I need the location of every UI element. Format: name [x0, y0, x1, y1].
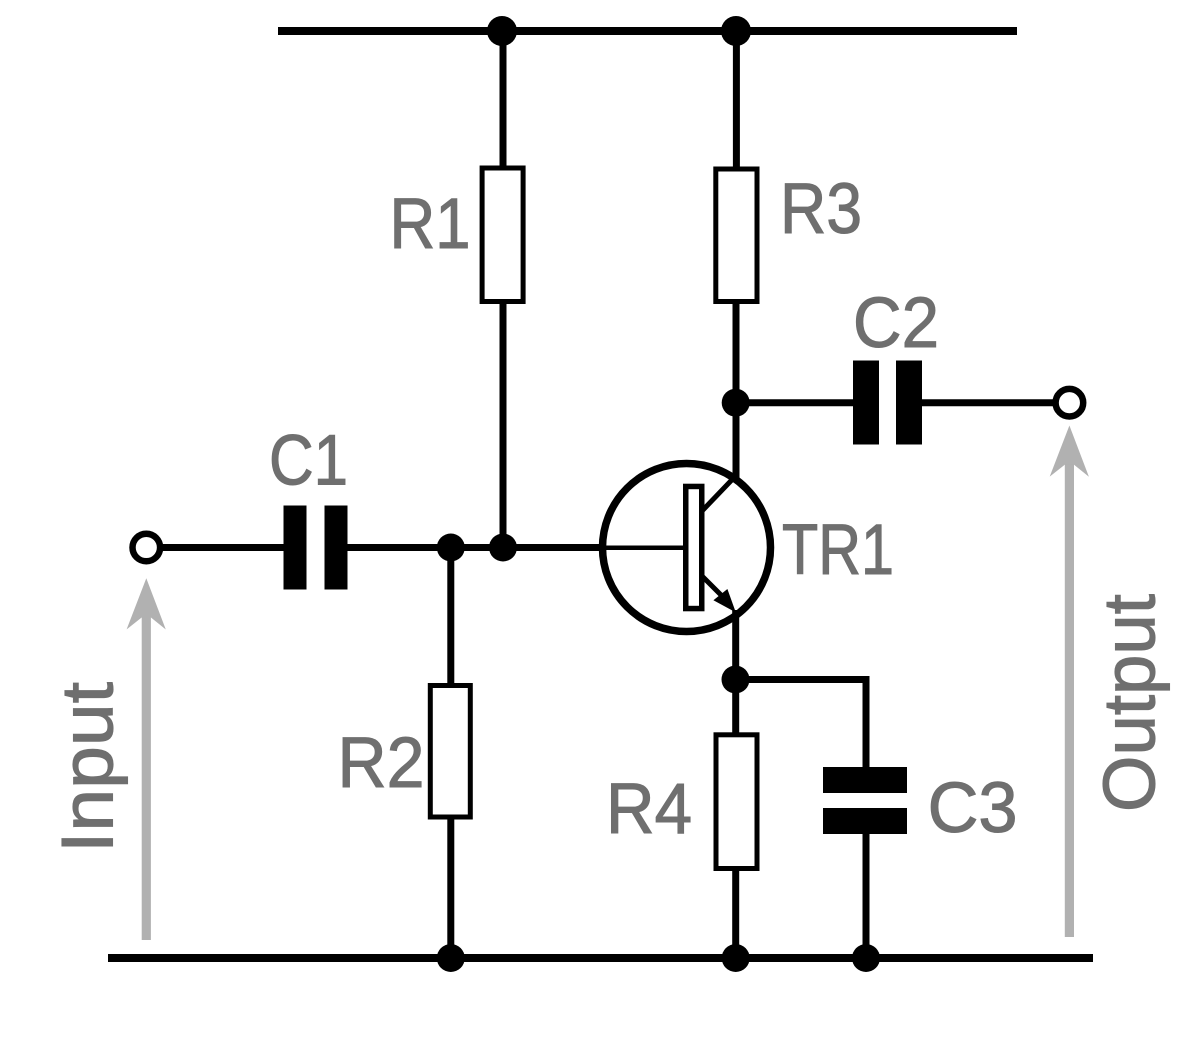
- node: ground-R2 junction: [437, 944, 465, 972]
- wire: R2 junction down to R2: [447, 548, 454, 687]
- wire: top supply rail: [278, 27, 1017, 35]
- transistor TR1 emitter stroke: [702, 576, 726, 600]
- svg-text:C2: C2: [853, 284, 939, 363]
- annotation arrow: input signal: [127, 578, 166, 940]
- resistor R1: [482, 168, 523, 302]
- svg-text:TR1: TR1: [782, 511, 894, 590]
- wire: emitter node down to R4: [732, 680, 739, 737]
- terminal: output open circle: [1056, 389, 1084, 417]
- svg-text:R2: R2: [338, 724, 425, 803]
- transistor TR1 emitter arrowhead: [713, 589, 735, 612]
- node: ground-R4 junction: [722, 944, 750, 972]
- wire: R4 bottom to ground rail: [732, 867, 739, 958]
- resistor R3: [716, 169, 757, 302]
- transistor TR1 base lead: [600, 546, 684, 551]
- wire: bottom ground rail: [108, 954, 1093, 962]
- wire: emitter node to C3 (corner): [736, 680, 867, 770]
- transistor TR1 collector stroke: [702, 475, 737, 512]
- wire: C2 to output terminal: [921, 399, 1055, 406]
- annotation arrow: output signal: [1050, 426, 1089, 938]
- svg-text:C3: C3: [928, 769, 1018, 848]
- svg-text:R3: R3: [780, 170, 862, 249]
- wire: C1 to transistor base: [346, 544, 606, 551]
- svg-text:R1: R1: [390, 185, 471, 264]
- node: ground-C3 junction: [852, 944, 880, 972]
- wire: R3 bottom to collector: [733, 302, 740, 479]
- transistor TR1 base bar: [686, 486, 702, 608]
- svg-text:Input: Input: [48, 682, 129, 853]
- wire: C3 bottom to ground rail: [863, 833, 870, 958]
- node: rail-R3 junction: [721, 16, 751, 46]
- wire: rail to R1 top: [500, 31, 507, 169]
- wire: R2 bottom to ground rail: [447, 817, 454, 958]
- wire: R1 bottom to base node: [500, 302, 507, 551]
- node: collector-C2 junction: [722, 389, 750, 417]
- resistor R2: [430, 686, 470, 818]
- transistor TR1 body circle: [603, 464, 771, 632]
- node: rail-R1 junction: [487, 16, 517, 46]
- capacitor C1: [284, 506, 348, 590]
- capacitor C3: [823, 767, 907, 834]
- wire: emitter down to emitter node: [732, 610, 739, 681]
- node: base-R2 junction: [437, 534, 465, 562]
- node: emitter junction: [722, 666, 750, 694]
- svg-text:R4: R4: [606, 770, 692, 849]
- svg-text:Output: Output: [1090, 594, 1171, 812]
- svg-text:C1: C1: [269, 422, 348, 501]
- resistor R4: [716, 735, 757, 869]
- node: base-R1 junction: [489, 534, 517, 562]
- capacitor C2: [853, 361, 922, 445]
- wire: input terminal to C1: [161, 544, 285, 551]
- wire: rail to R3 top: [733, 31, 740, 170]
- terminal: input open circle: [133, 534, 161, 562]
- wire: collector node to C2: [735, 399, 856, 406]
